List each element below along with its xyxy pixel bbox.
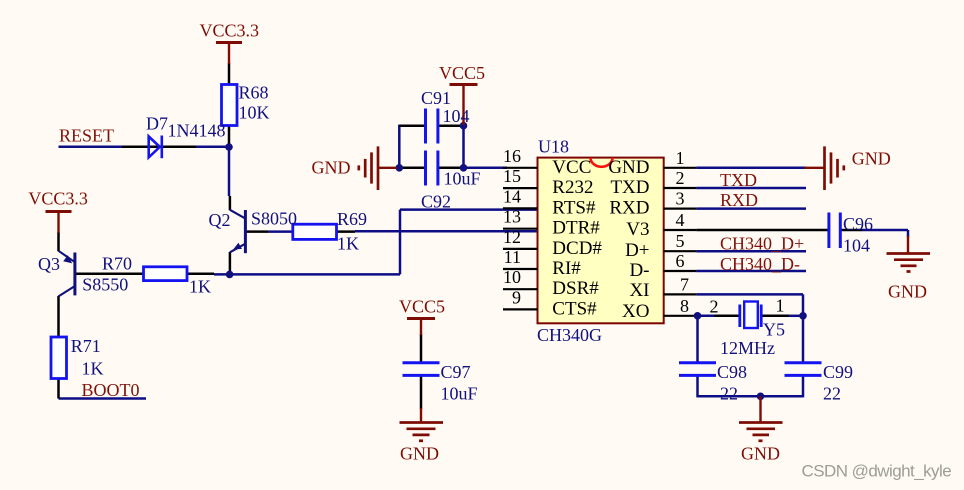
svg-text:11: 11 xyxy=(504,247,521,267)
svg-text:7: 7 xyxy=(680,275,689,295)
svg-text:22: 22 xyxy=(823,384,841,404)
svg-text:GND: GND xyxy=(400,444,439,464)
svg-text:C92: C92 xyxy=(421,192,451,212)
svg-text:XI: XI xyxy=(629,280,649,301)
svg-text:D-: D- xyxy=(629,260,649,281)
svg-text:GND: GND xyxy=(608,157,649,178)
svg-text:1: 1 xyxy=(776,295,785,315)
svg-text:RXD: RXD xyxy=(720,190,758,210)
svg-text:12MHz: 12MHz xyxy=(720,338,775,358)
svg-text:VCC: VCC xyxy=(552,157,591,178)
svg-text:2: 2 xyxy=(676,168,685,188)
svg-text:1N4148: 1N4148 xyxy=(168,120,226,140)
svg-text:C91: C91 xyxy=(421,88,451,108)
svg-text:10: 10 xyxy=(503,267,521,287)
svg-text:104: 104 xyxy=(843,236,870,256)
svg-text:CSDN @dwight_kyle: CSDN @dwight_kyle xyxy=(802,462,952,481)
svg-text:D7: D7 xyxy=(146,114,168,134)
svg-text:TXD: TXD xyxy=(720,170,757,190)
svg-text:RESET: RESET xyxy=(59,126,114,146)
svg-text:C96: C96 xyxy=(843,214,873,234)
svg-text:DTR#: DTR# xyxy=(552,218,600,239)
svg-text:R232: R232 xyxy=(552,177,593,198)
svg-text:R71: R71 xyxy=(71,336,101,356)
svg-text:22: 22 xyxy=(720,384,738,404)
svg-text:104: 104 xyxy=(443,106,470,126)
svg-text:TXD: TXD xyxy=(610,177,649,198)
svg-text:12: 12 xyxy=(503,227,521,247)
svg-text:D+: D+ xyxy=(625,240,649,261)
svg-text:9: 9 xyxy=(512,287,521,307)
svg-text:GND: GND xyxy=(312,158,351,178)
svg-text:6: 6 xyxy=(676,251,685,271)
svg-text:10uF: 10uF xyxy=(441,384,478,404)
svg-text:V3: V3 xyxy=(626,219,649,240)
svg-text:10uF: 10uF xyxy=(444,169,481,189)
svg-text:15: 15 xyxy=(503,166,521,186)
svg-text:GND: GND xyxy=(888,282,927,302)
svg-text:GND: GND xyxy=(852,149,891,169)
svg-text:C98: C98 xyxy=(717,362,747,382)
svg-text:14: 14 xyxy=(503,186,521,206)
svg-text:Q3: Q3 xyxy=(38,254,60,274)
svg-text:VCC5: VCC5 xyxy=(399,297,445,317)
svg-text:VCC3.3: VCC3.3 xyxy=(28,189,88,209)
svg-text:2: 2 xyxy=(710,296,719,316)
svg-text:10K: 10K xyxy=(239,103,270,123)
svg-text:XO: XO xyxy=(622,301,649,322)
svg-text:5: 5 xyxy=(676,231,685,251)
svg-text:C99: C99 xyxy=(823,362,853,382)
svg-text:RTS#: RTS# xyxy=(552,197,596,218)
svg-text:RI#: RI# xyxy=(552,258,581,279)
svg-text:R69: R69 xyxy=(337,209,367,229)
svg-text:Y5: Y5 xyxy=(763,320,785,340)
svg-text:1K: 1K xyxy=(189,277,211,297)
svg-text:R70: R70 xyxy=(102,254,132,274)
svg-text:CTS#: CTS# xyxy=(552,298,597,319)
svg-text:R68: R68 xyxy=(239,83,269,103)
svg-text:8: 8 xyxy=(680,296,689,316)
svg-text:13: 13 xyxy=(503,207,521,227)
svg-text:DCD#: DCD# xyxy=(552,238,602,259)
svg-text:3: 3 xyxy=(676,189,685,209)
svg-text:RXD: RXD xyxy=(609,197,649,218)
svg-text:16: 16 xyxy=(503,146,521,166)
svg-text:1: 1 xyxy=(676,148,685,168)
svg-text:GND: GND xyxy=(741,444,780,464)
svg-text:VCC5: VCC5 xyxy=(439,63,485,83)
svg-text:C97: C97 xyxy=(441,362,471,382)
svg-text:S8550: S8550 xyxy=(82,275,128,295)
svg-text:S8050: S8050 xyxy=(251,209,297,229)
svg-text:CH340_D-: CH340_D- xyxy=(720,254,800,274)
svg-text:4: 4 xyxy=(676,210,685,230)
svg-text:U18: U18 xyxy=(538,137,569,157)
svg-text:DSR#: DSR# xyxy=(552,278,599,299)
svg-text:1K: 1K xyxy=(82,359,104,379)
svg-text:1K: 1K xyxy=(337,234,359,254)
svg-text:CH340_D+: CH340_D+ xyxy=(720,234,804,254)
svg-text:Q2: Q2 xyxy=(209,210,231,230)
svg-text:CH340G: CH340G xyxy=(537,325,602,345)
svg-text:VCC3.3: VCC3.3 xyxy=(200,20,260,40)
svg-text:BOOT0: BOOT0 xyxy=(82,380,140,400)
